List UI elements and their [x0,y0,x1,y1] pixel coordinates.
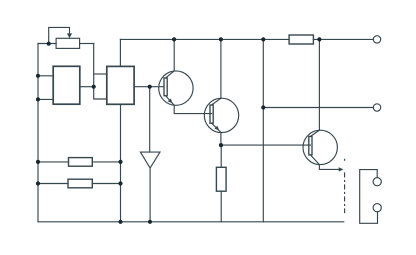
node rail Q2 [219,37,223,41]
wire R4 left [38,161,69,163]
wire U2 bottom [120,104,122,222]
block U2 [107,66,134,104]
node second rail [261,105,265,109]
node R5 right [118,181,122,185]
terminal T2 [373,104,380,111]
wire pot output vertical [94,44,107,100]
node rail Q1 [172,37,176,41]
wire R5 right [92,183,120,185]
node bottom D1 [148,220,152,224]
wire top rail [120,38,289,40]
wire left rail [37,44,39,222]
wire pot left lead [38,43,56,45]
node R4 left [36,160,40,164]
wire block2 upper-left stub [94,73,107,75]
arrowhead pot wiper [67,33,72,38]
wire Q1 collector [173,39,175,71]
wire U2 output [134,86,164,88]
wire mid vertical rail [262,39,264,221]
wire pot wiper feedback [49,27,70,43]
node R4 right [118,160,122,164]
wire Q2 emitter node to Q3 base [221,144,310,146]
wire U1 input 1 [38,75,53,77]
wire D1 bottom [149,168,151,222]
connector J1 [360,170,378,224]
wire U2 top supply [119,39,121,66]
wire R4 right [92,161,120,163]
wire U1 output [80,86,94,88]
transistor Q2 [204,98,238,132]
wire top rail right segment [313,38,373,40]
wire Q3 emitter output [319,165,339,170]
potentiometer R2 body [56,38,80,48]
resistor R5 [68,179,92,188]
block U1 [53,66,80,104]
node U1 in1 [36,74,40,78]
wire Q2 emitter [220,132,222,145]
wire R5 left [38,183,68,185]
boundary dash-dot line [344,173,346,213]
resistor R1 [289,35,313,44]
wire Q2 emitter node down [220,145,222,167]
node bottom U2 [118,220,122,224]
wire D1 top [149,87,151,152]
node Q2 emitter [219,143,223,147]
resistor R4 [69,158,93,167]
arrowhead Q3 output [339,167,344,171]
wire R3 bottom [220,191,222,222]
wire U1 input 2 [38,98,53,100]
transistor Q3 [303,130,337,164]
wire R1 to Q3 collector [318,39,320,130]
diode D1 triangle [140,152,160,168]
node rail R1 [317,37,321,41]
wire pot right lead [80,43,94,45]
connector J1 pin 1 [373,178,381,186]
wire second rail [263,107,373,109]
node rail mid [261,37,265,41]
node pot left [47,42,51,46]
node U1 in2 [36,97,40,101]
terminal T1 [373,36,380,43]
wire bottom rail [38,221,344,223]
boundary dash-dot line top dot [344,158,346,161]
transistor Q1 [159,71,193,105]
node R5 left [36,181,40,185]
connector J1 pin 2 [373,204,381,212]
resistor R3 [216,167,226,191]
wire Q1 emitter to Q2 base [174,105,211,113]
node U1 out [92,85,96,89]
wire Q2 collector [220,39,222,98]
node U2 out [148,85,152,89]
